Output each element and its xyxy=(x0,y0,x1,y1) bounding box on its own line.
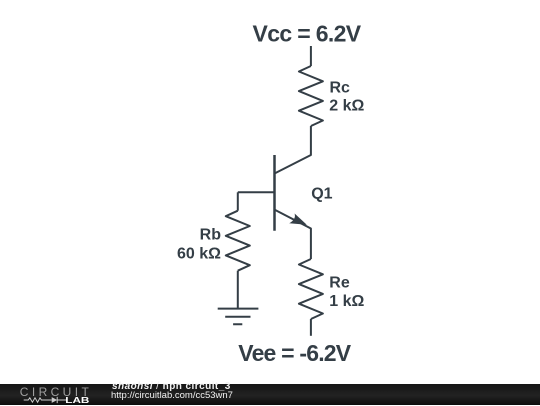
resistor Rb xyxy=(226,211,250,271)
wire base horizontal xyxy=(238,191,275,193)
resistor Rc xyxy=(299,66,323,126)
footer url line xyxy=(111,391,233,401)
transistor Q1 base bar xyxy=(273,155,276,231)
svg-text:Vcc = 6.2V: Vcc = 6.2V xyxy=(253,20,362,46)
wire collector vertical xyxy=(275,126,311,174)
logo resistor squiggle and diode xyxy=(24,397,67,403)
svg-text:Re: Re xyxy=(329,274,350,291)
svg-text:1 kΩ: 1 kΩ xyxy=(329,293,364,310)
wire base down xyxy=(237,192,239,210)
wire to Vee xyxy=(310,319,312,336)
svg-text:60 kΩ: 60 kΩ xyxy=(177,245,221,262)
svg-text:Rc: Rc xyxy=(330,80,351,97)
svg-text:Rb: Rb xyxy=(200,226,222,243)
svg-text:Vee = -6.2V: Vee = -6.2V xyxy=(238,340,351,366)
transistor Q1 emitter arrow xyxy=(289,214,307,225)
svg-text:Q1: Q1 xyxy=(311,185,332,202)
footer bar xyxy=(0,384,540,405)
svg-text:2 kΩ: 2 kΩ xyxy=(329,98,364,115)
footer title line xyxy=(112,382,231,392)
resistor Re xyxy=(299,259,323,319)
logo word LAB xyxy=(65,396,89,405)
wire to ground xyxy=(237,271,239,309)
node Vcc wire stub xyxy=(310,46,312,66)
ground xyxy=(218,309,259,325)
transistor Q1 emitter lead xyxy=(275,210,311,259)
svg-text:LAB: LAB xyxy=(65,396,89,405)
CircuitLab logo xyxy=(0,384,100,406)
